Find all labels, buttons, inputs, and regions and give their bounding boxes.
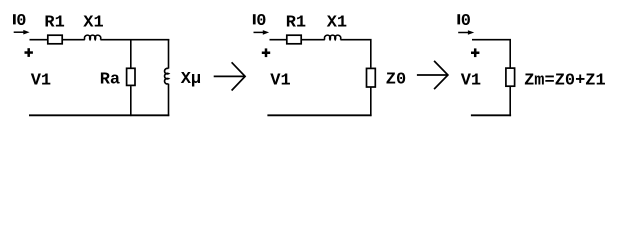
wire Zm lower	[509, 87, 511, 116]
svg-text:0: 0	[256, 12, 266, 31]
wire top-left segment	[30, 39, 48, 41]
wire bottom (left circuit)	[29, 114, 169, 116]
inductor X1 (left)	[84, 35, 100, 40]
wire top-left segment (middle)	[270, 39, 287, 41]
svg-text:Z0: Z0	[386, 70, 406, 89]
svg-text:V1: V1	[31, 72, 51, 91]
svg-text:Ra: Ra	[100, 70, 120, 89]
wire between R1 and X1 (middle)	[302, 39, 325, 41]
svg-text:0: 0	[461, 12, 471, 31]
impedance Z0 box	[367, 68, 376, 87]
wire top (right circuit)	[472, 40, 510, 68]
svg-text:Xμ: Xμ	[181, 70, 201, 89]
svg-text:0: 0	[16, 12, 26, 31]
svg-text:R1: R1	[44, 13, 64, 32]
svg-text:V1: V1	[461, 72, 481, 91]
inductor Xmu	[165, 68, 169, 84]
wire between R1 and X1 (left)	[63, 39, 85, 41]
svg-text:X1: X1	[327, 14, 347, 33]
current arrow I0 (right)	[458, 30, 474, 35]
wire Z0 lower	[370, 88, 372, 117]
svg-text:X1: X1	[83, 14, 103, 33]
svg-text:Zm=Z0+Z1: Zm=Z0+Z1	[524, 72, 606, 91]
wire bottom (middle circuit)	[267, 114, 371, 116]
impedance Zm box	[506, 68, 515, 86]
transform arrow 1	[214, 62, 245, 90]
wire top-right segment (middle)	[340, 40, 370, 68]
plus terminal (right)	[471, 48, 479, 57]
transform arrow 2	[417, 61, 448, 89]
resistor R1 (left)	[48, 35, 62, 44]
plus terminal (left)	[25, 48, 33, 57]
wire Ra branch lower	[130, 86, 132, 116]
wire Xmu branch lower	[168, 84, 170, 116]
wire top-right segment (left circuit)	[100, 39, 169, 41]
resistor R1 (middle)	[287, 35, 301, 44]
current arrow I0 (middle)	[254, 30, 270, 35]
wire Ra branch upper	[130, 40, 132, 68]
wire Xmu branch upper	[168, 39, 170, 69]
svg-text:V1: V1	[270, 72, 290, 91]
svg-text:R1: R1	[286, 13, 306, 32]
resistor Ra	[127, 68, 135, 85]
label I0 (left circuit)	[13, 12, 27, 31]
label I0 (middle circuit)	[253, 12, 267, 31]
plus terminal (middle)	[262, 48, 270, 57]
current arrow I0 (left)	[14, 30, 30, 35]
wire bottom (right circuit)	[471, 114, 511, 116]
inductor X1 (middle)	[324, 35, 340, 40]
label I0 (right circuit)	[457, 12, 471, 31]
